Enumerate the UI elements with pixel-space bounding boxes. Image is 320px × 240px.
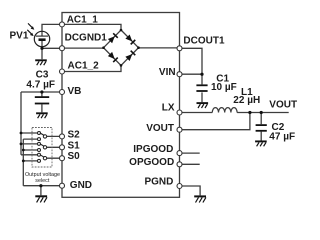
svg-text:OPGOOD: OPGOOD xyxy=(129,157,174,168)
svg-text:PGND: PGND xyxy=(144,177,173,188)
svg-text:PV1: PV1 xyxy=(10,30,29,41)
svg-text:AC1_2: AC1_2 xyxy=(68,60,100,71)
svg-text:select: select xyxy=(35,178,50,184)
svg-text:VB: VB xyxy=(68,86,82,97)
svg-text:10 µF: 10 µF xyxy=(211,82,237,93)
svg-text:22 µH: 22 µH xyxy=(233,95,260,106)
svg-text:S0: S0 xyxy=(68,151,81,162)
svg-text:4.7 µF: 4.7 µF xyxy=(26,80,55,91)
svg-text:47 µF: 47 µF xyxy=(269,132,295,143)
svg-text:VOUT: VOUT xyxy=(269,100,297,111)
svg-text:S1: S1 xyxy=(68,140,81,151)
svg-text:LX: LX xyxy=(162,103,175,114)
svg-text:DCOUT1: DCOUT1 xyxy=(183,35,225,46)
svg-text:DCGND1: DCGND1 xyxy=(65,32,108,43)
svg-text:GND: GND xyxy=(70,180,92,191)
svg-text:S2: S2 xyxy=(68,130,81,141)
svg-text:VOUT: VOUT xyxy=(146,123,174,134)
svg-text:AC1_1: AC1_1 xyxy=(67,14,99,25)
svg-text:IPGOOD: IPGOOD xyxy=(133,144,173,155)
svg-text:VIN: VIN xyxy=(159,67,176,78)
